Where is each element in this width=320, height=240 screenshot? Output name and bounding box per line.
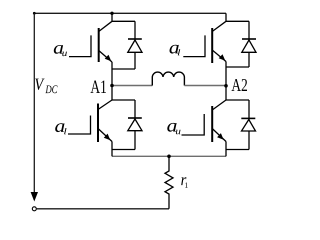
label a_l (gate of Q2) [170,45,179,54]
wire: top DC bus rail [34,12,226,14]
transistor Q4 collector diagonal [212,100,226,110]
label A1 [91,81,107,94]
label V_DC [35,79,44,90]
arrowhead of V_DC line pointing down [31,192,38,202]
diode D1 cathode bar [128,38,142,40]
transistor Q3 collector diagonal [98,100,112,110]
node: open terminal circle at bottom-left [32,207,36,211]
wire: bottom return wire [36,208,169,210]
transistor Q4 emitter arrowhead [217,133,224,140]
wire: A1 to inductor (gray) [112,85,152,87]
transistor Q4 (bottom-right IGBT) collector stub [225,86,227,100]
wire: Q3 emitter to diode D3 bottom [112,149,135,151]
wire: left V_DC vertical line [33,13,35,200]
transistor Q2 body bar [211,28,213,63]
transistor Q1 collector diagonal [99,21,112,31]
diode D1 triangle [128,40,142,52]
diode D1 vertical wire [134,21,136,69]
wire: Q1 emitter down to A1 [111,62,113,86]
wire: Q3 emitter down to bottom rail [111,142,113,157]
inductor L1 between A1 and A2 [152,72,184,85]
transistor Q4 gate bar and lead [182,114,205,135]
wire: Q1 emitter to diode D1 bottom [112,68,135,70]
diode D4 triangle [242,120,256,132]
wire: Q4 emitter down to bottom rail [225,142,227,157]
transistor Q3 body bar [97,104,99,143]
diode D4 cathode bar [241,117,255,119]
node A2 junction dot [224,84,228,88]
diode D3 vertical wire [134,100,136,150]
node A1 junction dot [110,84,114,88]
transistor Q2 gate bar and lead [183,35,205,56]
diode D3 cathode bar [128,117,142,119]
label a_u (gate of Q1) [54,45,63,54]
transistor Q3 emitter arrowhead [104,134,111,141]
wire: Q1 collector branch to diode D1 [112,20,135,22]
node: top-left corner junction dot [33,12,36,15]
diode D3 triangle [128,119,142,131]
transistor Q3 emitter diagonal [98,129,112,142]
label r1 [181,177,186,185]
transistor Q1 emitter diagonal [99,51,112,63]
label A2 [232,79,248,91]
node: dot at Q1 collector on top rail [110,12,113,15]
label a_l (gate of Q3) [55,123,64,132]
transistor Q3 (bottom-left IGBT) collector stub [111,86,113,101]
diode D2 vertical wire [248,21,250,67]
wire: Q2 emitter down to A2 [225,62,227,86]
label a_u (gate of Q4) [167,123,176,132]
diode D2 triangle [242,40,256,52]
transistor Q4 emitter diagonal [212,129,226,142]
wire: Q2 emitter to diode D2 bottom [226,66,249,68]
wire: Q4 emitter to diode D4 bottom [226,149,249,151]
transistor Q2 collector diagonal [212,21,226,31]
transistor Q1 body bar [98,28,100,62]
transistor Q2 emitter diagonal [212,50,226,62]
resistor r1 [165,156,173,209]
diode D2 cathode bar [242,38,256,40]
transistor Q3 gate bar and lead [68,116,91,135]
node: resistor junction dot [167,155,171,159]
transistor Q2 emitter arrowhead [219,54,226,61]
wire: inductor to A2 (gray) [184,85,226,87]
transistor Q4 body bar [211,106,213,142]
diode D4 vertical wire [248,100,250,150]
transistor Q1 gate bar and lead [69,35,91,56]
wire: Q4 collector branch to diode D4 [226,99,249,101]
wire: Q2 collector branch to diode D2 [226,20,249,22]
transistor Q2 (top-right IGBT) collector stub [225,13,227,21]
transistor Q1 emitter arrowhead [105,55,112,62]
wire: Q3 collector branch to diode D3 [112,99,135,101]
wire: bottom bridge rail (gray) [112,155,226,157]
transistor Q1 (top-left IGBT) collector stub [111,13,113,21]
